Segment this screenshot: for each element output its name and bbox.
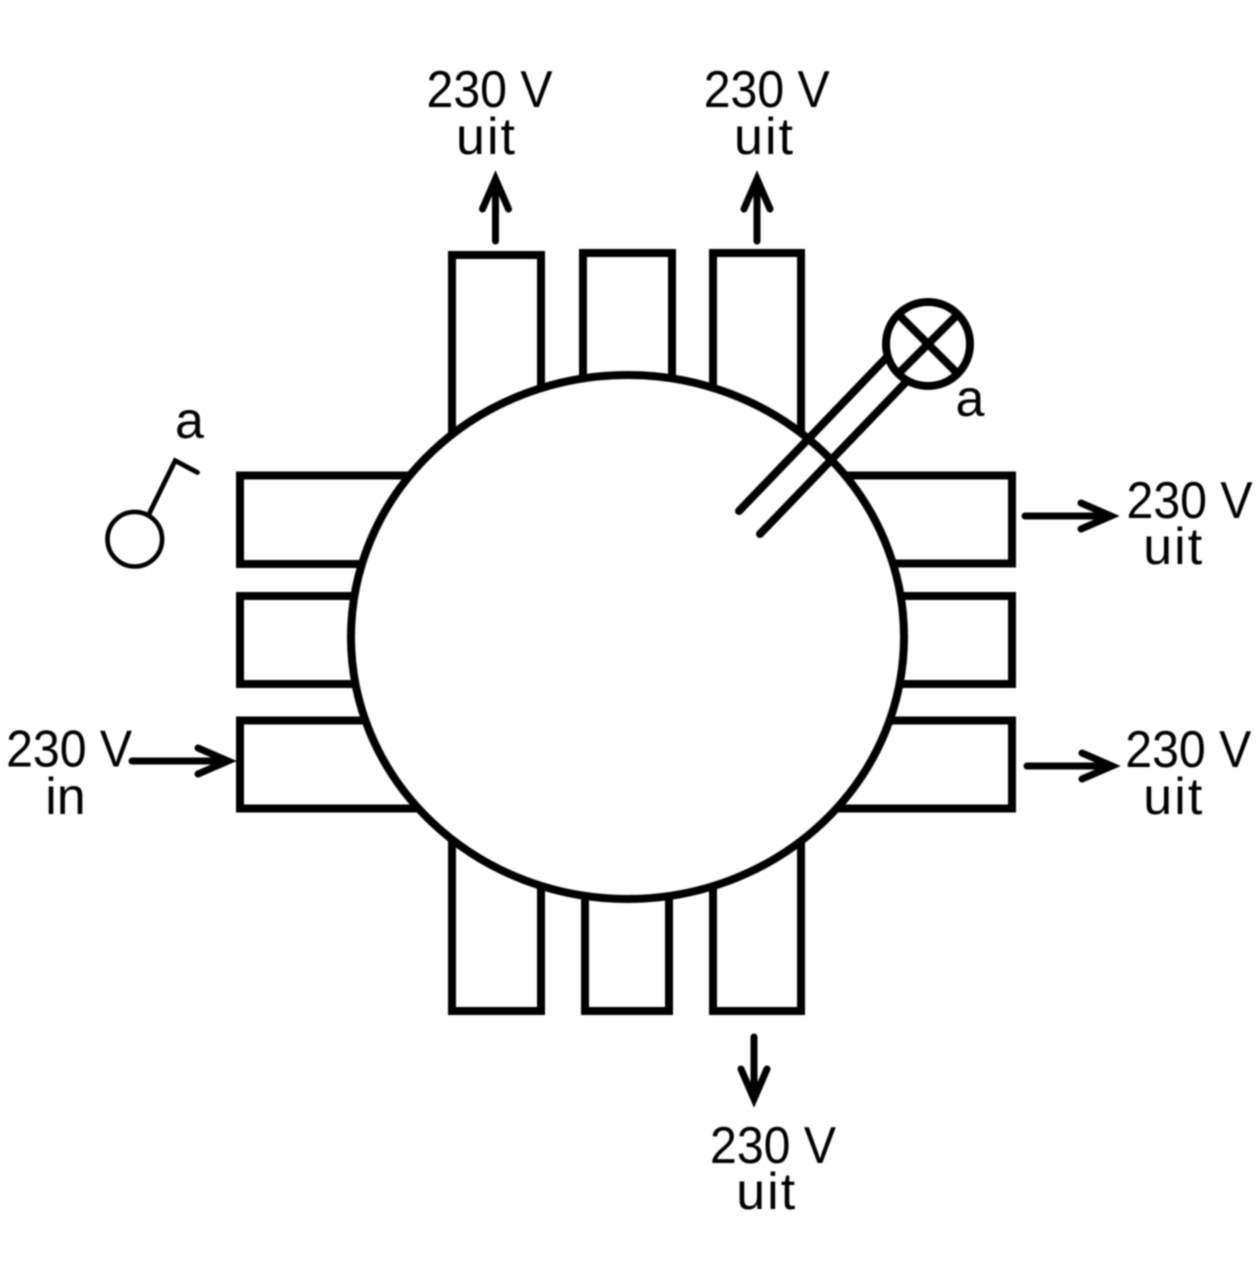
svg-text:a: a [956, 370, 985, 428]
svg-text:in: in [45, 768, 85, 826]
svg-text:a: a [175, 392, 204, 450]
